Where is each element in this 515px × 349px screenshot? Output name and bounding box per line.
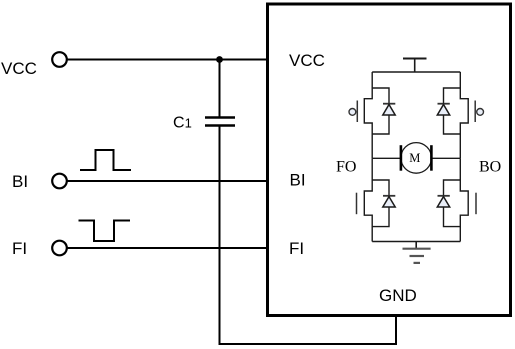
wire BO (432, 157, 461, 159)
wire VCC (67, 59, 267, 61)
body diode D3 (372, 180, 389, 227)
wire GND return (bottom horizontal) (219, 343, 398, 345)
wire FO (372, 157, 401, 159)
wire top rail (372, 71, 460, 73)
IC U1 outline (268, 4, 511, 316)
pulse symbol BI (positive pulse) (80, 150, 131, 170)
transistor Q3 (low-side left NMOS) (364, 158, 372, 241)
svg-text:BI: BI (12, 172, 28, 191)
svg-text:FI: FI (289, 239, 304, 258)
svg-text:VCC: VCC (1, 59, 37, 78)
terminal VCC (52, 52, 67, 67)
gate Q2 (474, 101, 476, 123)
motor M (401, 143, 432, 174)
wire GND pin riser (395, 315, 397, 344)
svg-text:VCC: VCC (289, 51, 325, 70)
transistor Q1 (high-side left PMOS) (364, 72, 372, 158)
terminal FI (52, 241, 67, 256)
transistor Q2 (high-side right PMOS) (460, 72, 468, 158)
VCC power symbol (403, 58, 427, 60)
body diode D1 (372, 88, 389, 134)
svg-text:BO: BO (479, 159, 501, 176)
wire C1 top lead (219, 60, 221, 118)
body diode D4 (444, 180, 461, 227)
body diode D2 (444, 88, 461, 134)
wire FI (67, 247, 267, 249)
transistor Q4 (low-side right NMOS) (460, 158, 468, 241)
wire BI (67, 180, 267, 182)
svg-text:C1: C1 (173, 115, 192, 132)
junction dot VCC/C1 (216, 56, 223, 63)
gate Q1 (356, 101, 358, 123)
svg-text:FO: FO (336, 159, 356, 176)
terminal BI (52, 174, 67, 189)
gate Q4 (475, 193, 477, 215)
svg-text:FI: FI (12, 239, 27, 258)
wire bottom rail (372, 241, 460, 243)
wire C1 bottom lead (219, 126, 221, 344)
gate Q3 (356, 193, 358, 215)
svg-text:M: M (409, 151, 420, 165)
svg-text:BI: BI (290, 171, 306, 190)
capacitor C1 (205, 116, 235, 118)
ground symbol (415, 242, 417, 249)
svg-text:GND: GND (379, 286, 417, 305)
pulse symbol FI (negative pulse) (79, 221, 131, 242)
